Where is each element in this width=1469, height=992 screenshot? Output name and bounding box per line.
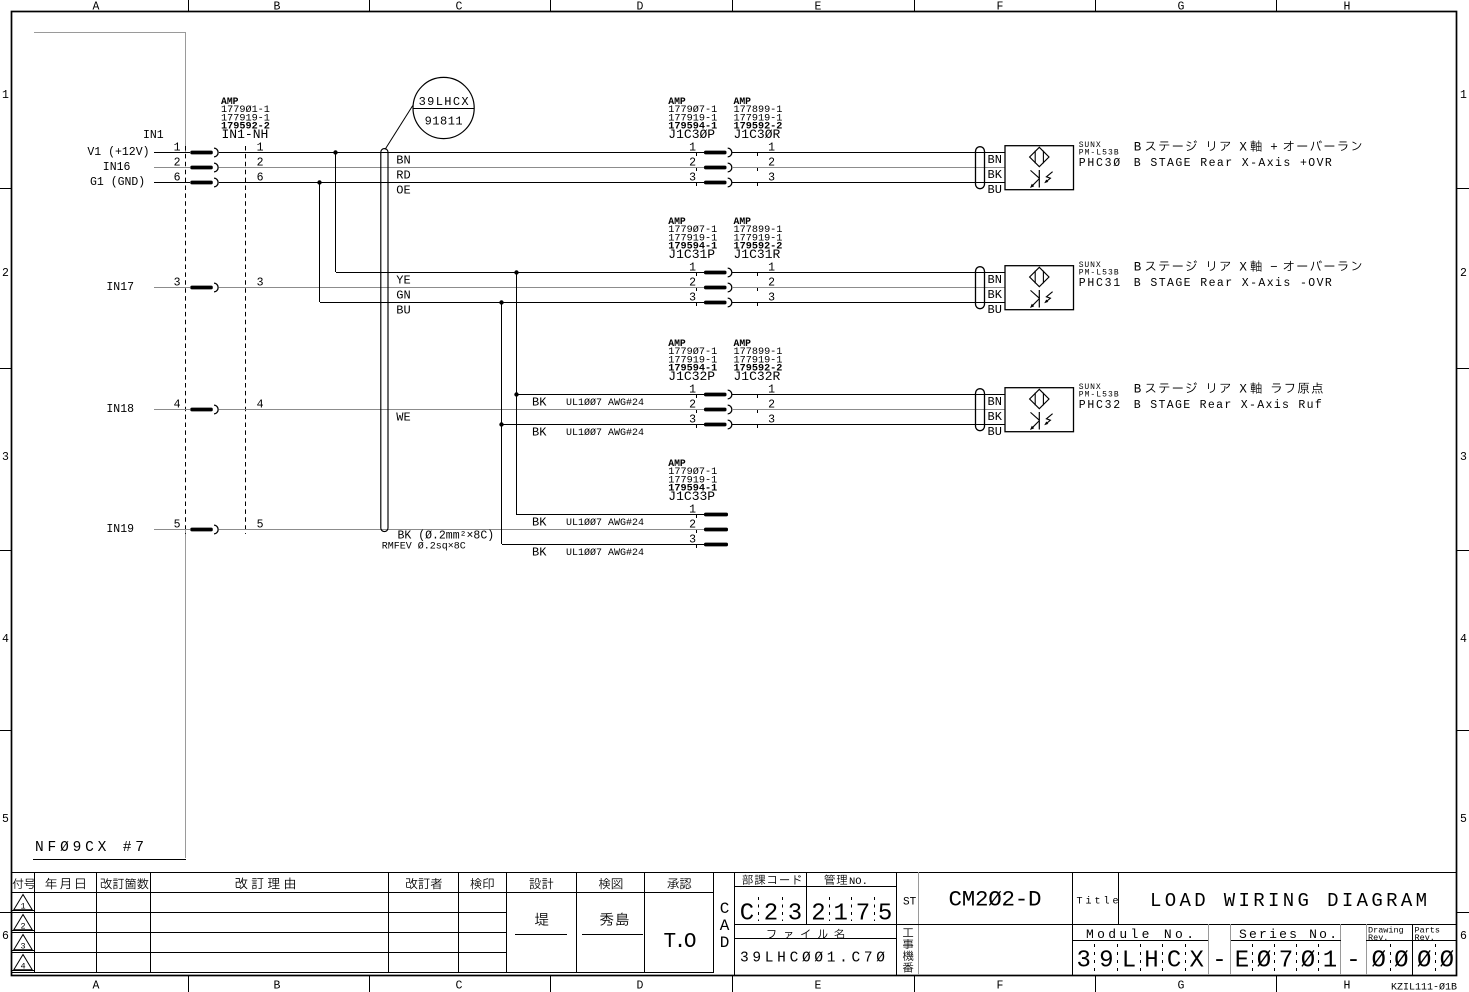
wire YE row to J1C31P pin1 [336,272,704,274]
cable callout leader [385,106,413,150]
svg-text:2: 2 [811,901,825,928]
cable sheath 8-core bundle [381,149,388,532]
connector J1C33P pin 3 contact [689,534,728,549]
svg-text:H: H [1344,980,1351,992]
svg-text:3: 3 [689,172,696,185]
connector J1C30P pin 1 contact [689,142,775,157]
svg-text:BN: BN [988,273,1002,287]
svg-text:1: 1 [833,901,847,928]
svg-text:Module No.: Module No. [1086,927,1194,942]
svg-text:BN: BN [988,395,1002,409]
wire color label BN [396,154,410,168]
svg-text:2: 2 [689,399,696,412]
wire color label BU [396,304,410,318]
svg-text:T.O: T.O [664,931,697,954]
svg-text:3: 3 [788,901,802,928]
sensor PHC32 cable grommet [976,389,985,431]
svg-text:RMFEV Ø.2sq×8C: RMFEV Ø.2sq×8C [382,541,466,553]
svg-text:5: 5 [2,813,9,826]
svg-text:RD: RD [396,169,410,183]
svg-text:6: 6 [1460,930,1467,943]
svg-text:B: B [274,1,281,14]
svg-text:Rev.: Rev. [1368,933,1388,943]
svg-text:PHC32: PHC32 [1079,399,1121,412]
svg-text:UL1ØØ7 AWG#24: UL1ØØ7 AWG#24 [566,397,644,409]
svg-text:1: 1 [1460,89,1467,102]
svg-text:5: 5 [1460,813,1467,826]
svg-text:X: X [1239,383,1247,397]
wire J1C32P pin 3 to sensor [732,424,1005,426]
svg-text:E: E [815,1,822,14]
svg-text:91811: 91811 [425,115,463,129]
svg-text:UL1ØØ7 AWG#24: UL1ØØ7 AWG#24 [566,547,644,559]
svg-text:1: 1 [689,262,696,275]
connector J1C30P pin 2 contact [689,157,775,172]
wire V1 from NF09CX pin 1 [154,152,190,154]
svg-text:9: 9 [1099,948,1113,975]
sensor PHC31 cable grommet [976,267,985,309]
svg-text:UL1ØØ7 AWG#24: UL1ØØ7 AWG#24 [566,427,644,439]
svg-text:CM2Ø2-D: CM2Ø2-D [949,887,1042,913]
wire pin 6 to J1C3xP [219,182,704,184]
node IN19 signal label [106,523,134,536]
svg-text:OE: OE [396,184,410,198]
svg-text:Ø: Ø [1371,948,1385,975]
svg-text:B STAGE Rear X-Axis +OVR: B STAGE Rear X-Axis +OVR [1134,157,1332,170]
svg-text:NO.: NO. [849,876,868,888]
svg-text:F: F [997,980,1004,992]
wire J1C31P pin 3 to sensor [732,302,1005,304]
svg-text:J1C32P: J1C32P [668,369,715,384]
revision marker 4 [12,955,34,972]
revision marker 1 [12,895,34,912]
svg-text:B: B [1134,141,1142,155]
svg-text:PM-L53B: PM-L53B [1079,148,1119,157]
svg-text:X: X [1189,948,1203,975]
svg-text:IN16: IN16 [103,161,131,174]
sensor PHC30 labels [1079,141,1121,170]
svg-text:BK: BK [988,168,1003,182]
revision marker 2 [12,915,34,932]
svg-text:B STAGE Rear X-Axis Ruf: B STAGE Rear X-Axis Ruf [1134,399,1322,412]
serial column label [903,928,913,972]
connector J1C31P pin 1 contact [689,262,775,277]
connector J1C33P pin 2 contact [689,519,728,534]
wire pin 3 to J1C3xP [219,287,704,289]
sensor PHC32 description japanese [1134,382,1323,396]
sensor PHC31 wire labels BN BK BU [988,273,1003,317]
sensor PHC31 description japanese [1134,260,1362,274]
wire GND vertical distribution [317,180,321,302]
svg-text:BU: BU [988,303,1002,317]
wire color label RD [396,169,410,183]
svg-text:3: 3 [1076,948,1090,975]
svg-text:NFØ9CX #7: NFØ9CX #7 [35,840,144,856]
svg-text:IN1: IN1 [143,129,164,142]
svg-text:2: 2 [174,157,181,170]
module / series number area [1072,924,1456,975]
wire color label GN [396,289,410,303]
svg-text:Ø: Ø [1440,948,1454,975]
wire G1 from NF09CX pin 6 [154,182,190,184]
svg-text:Ø: Ø [1301,948,1315,975]
svg-text:39LHCX: 39LHCX [419,95,469,109]
svg-text:J1C32R: J1C32R [734,369,781,384]
svg-text:LOAD WIRING DIAGRAM: LOAD WIRING DIAGRAM [1150,890,1427,912]
wire color label OE [396,184,410,198]
svg-text:BU: BU [988,183,1002,197]
module number 39LHCX-E0701-0000 [1076,944,1454,975]
file name 39LHC001.C70 [740,929,885,967]
svg-text:PHC3Ø: PHC3Ø [1079,157,1121,170]
title block revision table [12,872,1457,975]
designer signatures [515,900,730,954]
wire pin 5 to J1C3xP [219,529,704,531]
svg-text:KZIL111-Ø1B: KZIL111-Ø1B [1391,982,1457,992]
connector J1C31P pin 3 contact [689,292,775,307]
wire color label WE [396,411,410,425]
connector J1C30P pin 3 contact [689,172,775,187]
connector J1C32P part numbers (AMP) [668,338,717,384]
svg-text:D: D [637,980,644,992]
svg-text:3: 3 [20,942,25,952]
svg-text:4: 4 [174,399,181,412]
svg-text:G: G [1178,980,1185,992]
cable callout balloon 39LHCX / 91811 [413,77,474,138]
connector IN1-NH pin 2 contact [174,157,264,172]
node V1 signal label [87,146,149,159]
wire GND vertical distribution lower [499,300,503,544]
wire label BK UL1007 AWG#24 [532,426,644,440]
svg-text:7: 7 [856,901,870,928]
svg-text:IN18: IN18 [106,403,134,416]
title block code area [735,872,1457,975]
label NF09CX #7 [35,840,144,856]
svg-text:X: X [1239,261,1247,275]
svg-text:1: 1 [689,142,696,155]
svg-text:−: − [1270,261,1278,275]
svg-text:WE: WE [396,411,410,425]
node IN18 signal label [106,403,134,416]
svg-text:BK: BK [532,396,547,410]
wire color label YE [396,274,410,288]
svg-text:3: 3 [1460,451,1467,464]
svg-text:C: C [720,900,730,918]
wire J1C30P pin 1 to sensor [732,152,1005,154]
sensor PHC31 labels [1079,261,1121,290]
svg-text:1: 1 [174,142,181,155]
sensor PHC32 labels [1079,383,1121,412]
sensor PHC30 wire labels BN BK BU [988,153,1003,197]
wire J1C30P pin 3 to sensor [732,182,1005,184]
svg-text:2: 2 [689,277,696,290]
svg-text:D: D [720,934,730,952]
node IN17 signal label [106,281,134,294]
svg-text:3: 3 [689,292,696,305]
svg-text:D: D [637,1,644,14]
svg-text:2: 2 [764,901,778,928]
svg-text:BK: BK [532,546,547,560]
revision marker 3 [12,935,34,952]
svg-text:1: 1 [1323,948,1337,975]
wire J1C30P pin 2 to sensor [732,167,1005,169]
sensor PHC31 photoelectric sensor SUNX PM-L53B [1005,266,1074,310]
svg-text:F: F [997,1,1004,14]
svg-text:YE: YE [396,274,410,288]
svg-text:J1C31P: J1C31P [668,247,715,262]
svg-text:BU: BU [396,304,410,318]
sensor PHC32 wire labels BN BK BU [988,395,1003,439]
svg-text:E: E [815,980,822,992]
svg-text:Ø: Ø [1257,948,1271,975]
svg-text:C: C [740,901,754,928]
svg-text:BN: BN [396,154,410,168]
svg-text:BU: BU [988,425,1002,439]
svg-text:4: 4 [20,962,25,972]
connector J1C32P pin 2 contact [689,399,775,414]
wire pin 4 to J1C3xP [219,409,704,411]
wire pin 2 to J1C3xP [219,167,704,169]
svg-text:ST: ST [903,897,917,909]
svg-text:1: 1 [689,384,696,397]
svg-text:2: 2 [689,519,696,532]
wire BK row to J1C33P pin1 [516,514,704,516]
svg-text:BK (Ø.2mm²×8C): BK (Ø.2mm²×8C) [398,529,495,542]
svg-text:H: H [1144,948,1158,975]
svg-text:Rev.: Rev. [1415,933,1435,943]
connector J1C31P part numbers (AMP) [668,216,717,262]
svg-text:Title: Title [1077,895,1119,907]
connector IN1-NH pin 5 contact [174,519,264,534]
wire IN18 from NF09CX pin 4 [154,409,190,411]
wire BK row to J1C33P pin3 [502,544,704,546]
cable spec label BK 0.2mm x 8C [382,529,494,552]
svg-text:1: 1 [2,89,9,102]
connector IN1 face dashed boundary [186,146,246,534]
svg-text:B: B [274,980,281,992]
svg-text:2: 2 [689,157,696,170]
sensor PHC32 photoelectric sensor SUNX PM-L53B [1005,388,1074,432]
sensor PHC31 description english [1134,277,1332,290]
sensor PHC32 description english [1134,399,1322,412]
svg-text:A: A [93,980,100,992]
svg-text:J1C31R: J1C31R [734,247,781,262]
svg-text:G1 (GND): G1 (GND) [90,176,145,189]
connector IN1-NH part numbers (AMP) [143,96,270,142]
svg-text:B STAGE Rear X-Axis -OVR: B STAGE Rear X-Axis -OVR [1134,277,1332,290]
connector J1C30R part numbers (AMP) [734,96,783,142]
connector IN1-NH pin 3 contact [174,277,264,292]
connector J1C32R part numbers (AMP) [734,338,783,384]
svg-text:B: B [1134,261,1142,275]
svg-text:G: G [1178,1,1185,14]
title cell [1073,872,1119,975]
svg-text:BK: BK [988,288,1003,302]
svg-text:BK: BK [532,426,547,440]
node G1 signal label [90,176,145,189]
svg-text:PHC31: PHC31 [1079,277,1121,290]
svg-text:IN1-NH: IN1-NH [222,127,269,142]
svg-text:J1C33P: J1C33P [668,489,715,504]
title LOAD WIRING DIAGRAM [1150,890,1427,912]
connector J1C32P pin 1 contact [689,384,775,399]
svg-text:-: - [1212,948,1226,975]
node IN16 signal label [103,161,131,174]
sensor PHC30 description japanese [1134,140,1362,154]
svg-text:-: - [1346,948,1360,975]
wire J1C31P pin 1 to sensor [732,272,1005,274]
svg-text:4: 4 [1460,633,1467,646]
svg-text:5: 5 [174,519,181,532]
svg-text:Ø: Ø [1394,948,1408,975]
svg-text:GN: GN [396,289,410,303]
svg-text:6: 6 [2,930,9,943]
drawing number CM202-D [949,887,1042,913]
svg-text:Ø: Ø [1417,948,1431,975]
svg-text:A: A [93,1,100,14]
svg-text:V1 (+12V): V1 (+12V) [87,146,149,159]
connector J1C33P part numbers (AMP) [668,458,717,504]
svg-text:PM-L53B: PM-L53B [1079,268,1119,277]
wire J1C32P pin 2 to sensor [732,409,1005,411]
connector J1C32P pin 3 contact [689,414,775,429]
connector J1C31P pin 2 contact [689,277,775,292]
svg-text:BN: BN [988,153,1002,167]
svg-text:3: 3 [174,277,181,290]
wire IN16 from NF09CX pin 2 [154,167,190,169]
svg-text:BK: BK [532,516,547,530]
svg-text:C: C [456,1,463,14]
svg-text:7: 7 [1279,948,1293,975]
connector J1C33P pin 1 contact [689,504,728,519]
svg-text:3: 3 [2,451,9,464]
wire BU row to J1C31P pin3 [320,302,704,304]
connector J1C30P part numbers (AMP) [668,96,717,142]
connector J1C31R part numbers (AMP) [734,216,783,262]
svg-text:J1C3ØR: J1C3ØR [734,127,781,142]
svg-text:X: X [1239,141,1247,155]
svg-text:UL1ØØ7 AWG#24: UL1ØØ7 AWG#24 [566,517,644,529]
svg-text:2: 2 [2,267,9,280]
svg-text:1: 1 [20,902,25,912]
svg-text:PM-L53B: PM-L53B [1079,390,1119,399]
svg-text:IN17: IN17 [106,281,134,294]
svg-text:H: H [1344,1,1351,14]
svg-text:2: 2 [20,922,25,932]
wire pin 1 to J1C3xP [219,152,704,154]
svg-text:L: L [1122,948,1136,975]
svg-text:2: 2 [1460,267,1467,280]
wire IN19 from NF09CX pin 5 [154,529,190,531]
svg-text:5: 5 [878,901,892,928]
svg-text:1: 1 [689,504,696,517]
svg-text:4: 4 [2,633,9,646]
wire label BK UL1007 AWG#24 [532,516,644,530]
wire J1C31P pin 2 to sensor [732,287,1005,289]
revision table headers [13,878,692,890]
svg-text:C: C [1167,948,1181,975]
wire BK row to J1C32P pin1 [516,394,704,396]
sensor PHC30 cable grommet [976,147,985,189]
svg-text:BK: BK [988,410,1003,424]
sheet code KZIL111-01B [1391,982,1457,992]
svg-text:IN19: IN19 [106,523,134,536]
connector IN1-NH pin 1 contact [174,142,264,157]
wire label BK UL1007 AWG#24 [532,546,644,560]
sensor PHC30 photoelectric sensor SUNX PM-L53B [1005,146,1074,190]
wire IN17 from NF09CX pin 3 [154,287,190,289]
svg-text:J1C3ØP: J1C3ØP [668,127,715,142]
svg-text:39LHCØØ1.C7Ø: 39LHCØØ1.C7Ø [740,951,885,967]
connector block NF09CX #7 outline [33,32,186,860]
sensor PHC30 description english [1134,157,1332,170]
connector IN1-NH pin 6 contact [174,172,264,187]
wire +12V vertical distribution [333,150,337,272]
wire +12V vertical distribution lower [514,270,518,514]
svg-text:3: 3 [689,414,696,427]
wire label BK UL1007 AWG#24 [532,396,644,410]
code C23 2175 [740,897,917,928]
connector IN1-NH pin 4 contact [174,399,264,414]
svg-text:+: + [1270,141,1278,155]
svg-text:B: B [1134,383,1142,397]
svg-text:6: 6 [174,172,181,185]
wire J1C32P pin 1 to sensor [732,394,1005,396]
svg-text:C: C [456,980,463,992]
svg-text:E: E [1235,948,1249,975]
wire BK row to J1C32P pin3 [502,424,704,426]
svg-text:Series No.: Series No. [1239,927,1337,942]
svg-text:A: A [720,917,730,935]
svg-text:3: 3 [689,534,696,547]
